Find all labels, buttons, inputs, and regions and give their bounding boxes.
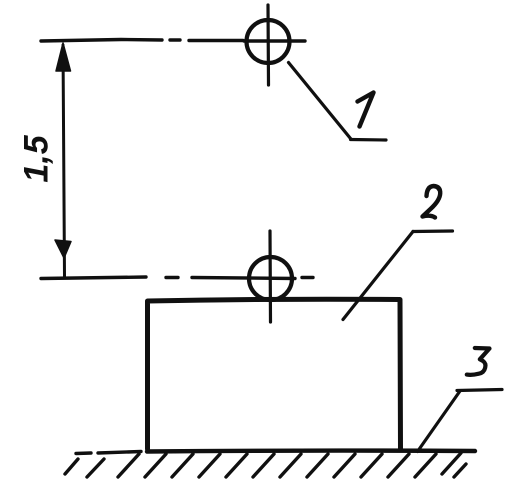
lower reference centerline (dash-dot) bbox=[41, 277, 313, 279]
ball 2 (lower circle resting on box) bbox=[249, 257, 292, 300]
leader line to label 3 bbox=[418, 390, 503, 452]
leader line to label 2 bbox=[343, 231, 453, 320]
ground hatching bbox=[65, 453, 466, 477]
dimension line 1,5 (vertical, with arrowheads) bbox=[55, 43, 71, 277]
top reference centerline (dash-dot) bbox=[41, 40, 305, 42]
ball 1 (top circle) bbox=[247, 20, 290, 63]
box 2 (rectangle, open bottom on ground) bbox=[148, 299, 401, 450]
label 3 bbox=[467, 348, 490, 375]
lower ball vertical centerline bbox=[268, 231, 272, 322]
leader line to label 1 bbox=[289, 63, 387, 141]
ball 1 vertical centerline bbox=[266, 5, 270, 85]
ground line bbox=[76, 451, 475, 454]
label 2 bbox=[423, 186, 441, 218]
svg-text:1,5: 1,5 bbox=[17, 134, 55, 182]
label 1 bbox=[358, 93, 374, 127]
